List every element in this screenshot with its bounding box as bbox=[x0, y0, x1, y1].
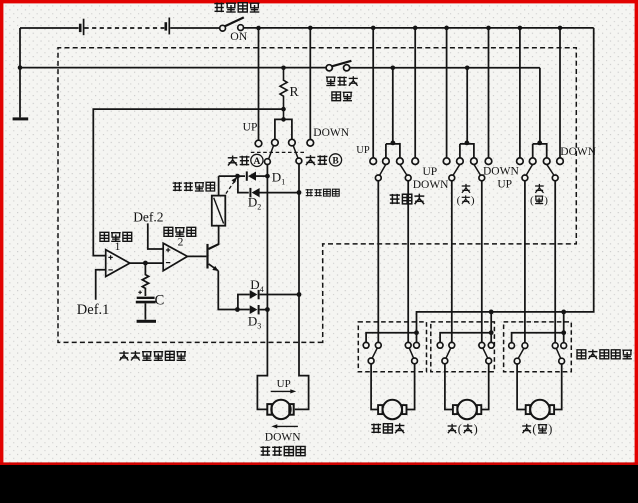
node R bottom bbox=[281, 107, 286, 112]
svg-text:): ) bbox=[544, 195, 548, 207]
wire door-RL internal feed bbox=[440, 333, 491, 343]
dashed actuation arrow bbox=[226, 182, 234, 193]
label 触点 B bbox=[306, 155, 328, 165]
rocker-FP outer contact down bbox=[412, 158, 419, 165]
node D3 branch bbox=[235, 307, 240, 312]
wire door-FP motor left bbox=[371, 364, 378, 410]
wire door-RR motor left bbox=[517, 364, 525, 410]
wire rocker-FP down drop bbox=[414, 28, 416, 158]
wire emitter down bbox=[218, 271, 237, 310]
door-FP lever right bbox=[409, 348, 414, 359]
motor door-RL bbox=[453, 400, 481, 419]
wire second rail left bbox=[20, 67, 326, 69]
wire FP-up drop bbox=[377, 181, 379, 343]
wire D4 stub bbox=[238, 295, 250, 310]
wire coil bottom to collector bbox=[208, 226, 218, 249]
wire contact B vertical bbox=[295, 164, 309, 410]
svg-text:): ) bbox=[548, 422, 552, 436]
door-FP moving contact right bbox=[412, 358, 418, 364]
wire rocker-FP up drop bbox=[372, 28, 374, 158]
label 电磁线圈 solenoid coil bbox=[173, 182, 215, 191]
red frame left bbox=[0, 0, 3, 465]
svg-text:): ) bbox=[471, 195, 475, 207]
svg-text:A: A bbox=[253, 157, 260, 167]
rocker-RL-up moving contact bbox=[449, 175, 455, 181]
driver rocker inner contacts bbox=[272, 139, 279, 146]
wire comp1 lower input Def.1 bbox=[96, 270, 106, 300]
svg-text:): ) bbox=[474, 422, 478, 436]
svg-text:D: D bbox=[248, 195, 257, 210]
door-RL lever left bbox=[446, 348, 451, 359]
door-RL fixed contacts bbox=[437, 342, 443, 348]
red frame right bbox=[635, 0, 638, 465]
node arrow-junction bbox=[235, 174, 240, 179]
svg-text:DOWN: DOWN bbox=[313, 127, 349, 139]
wire box2 feed stub bbox=[490, 312, 492, 333]
label 前驱动器 front driver motor bbox=[260, 446, 305, 456]
node door-RR feed split bbox=[561, 330, 566, 335]
wire rocker-RL feed bbox=[466, 68, 468, 143]
wire driver UP drop bbox=[258, 28, 260, 140]
dashed box door-RR bbox=[504, 322, 572, 372]
battery B2 bbox=[165, 18, 170, 35]
node door-RL feed split bbox=[489, 330, 494, 335]
wire door-FP motor right bbox=[407, 364, 415, 410]
capacitor C bbox=[136, 291, 156, 320]
wire rocker-RR up drop bbox=[519, 28, 521, 158]
rocker-RL outer contact down bbox=[485, 158, 492, 165]
wire rocker-RR feed bbox=[539, 68, 541, 143]
rocker-FP-up lever bbox=[380, 164, 386, 175]
label 点火开关 ignition switch bbox=[214, 3, 259, 13]
rocker-FP-down moving contact bbox=[405, 175, 411, 181]
svg-text:DOWN: DOWN bbox=[560, 146, 596, 158]
wire comp2 output to base bbox=[187, 255, 206, 257]
label 窗锁止 window lock bbox=[326, 76, 358, 86]
dashed box door-RL bbox=[431, 322, 495, 372]
svg-text:D: D bbox=[248, 314, 257, 329]
door-RR moving contact left bbox=[514, 358, 520, 364]
node comp1 out bbox=[143, 261, 148, 266]
driver rocker bridge bbox=[275, 119, 292, 139]
label 后 右 motor bbox=[522, 424, 531, 433]
rocker-FP-up moving contact bbox=[375, 175, 381, 181]
contact A circle bbox=[265, 159, 271, 165]
node rocker-RR bridge bbox=[537, 141, 542, 146]
svg-text:4: 4 bbox=[260, 285, 264, 294]
wire second rail right bbox=[350, 67, 540, 69]
label 前乘客 motor bbox=[371, 423, 404, 433]
node rr-up-tap bbox=[518, 26, 523, 31]
driver DOWN contact bbox=[307, 140, 314, 147]
svg-text:(: ( bbox=[532, 422, 536, 436]
door-RL moving contact right bbox=[486, 358, 492, 364]
node rocker-RL bridge bbox=[465, 141, 470, 146]
red frame bottom line bbox=[0, 462, 638, 465]
label 比较器 1 bbox=[100, 232, 132, 241]
label 前驱动器 front driver (relay) bbox=[306, 189, 340, 196]
wire right feed bus bbox=[417, 28, 594, 333]
wire box3 feed stub bbox=[563, 312, 565, 333]
wire door-RL motor left bbox=[445, 364, 453, 410]
wire top power rail bbox=[243, 27, 593, 29]
node rr-down-tap bbox=[558, 26, 563, 31]
wire Def.2 to comp2 bbox=[148, 223, 163, 249]
label 后 左 rear left switch bbox=[462, 184, 471, 193]
battery B1 bbox=[79, 19, 84, 36]
svg-text:R: R bbox=[290, 84, 299, 99]
red frame top bbox=[0, 0, 638, 3]
svg-text:ON: ON bbox=[230, 29, 248, 43]
wire D1-D2 stub bbox=[238, 176, 249, 193]
node D1 cathode? anode junction bbox=[265, 174, 270, 179]
wire rocker-RL up drop bbox=[446, 28, 448, 158]
svg-text:1: 1 bbox=[281, 177, 285, 186]
rocker-FP-down lever bbox=[400, 164, 407, 175]
diode D3 bbox=[237, 305, 267, 314]
resistor RC small bbox=[142, 263, 148, 296]
label 驾驶座主开关 driver master switch bbox=[119, 351, 186, 361]
resistor R bbox=[280, 68, 287, 120]
svg-text:D: D bbox=[250, 277, 259, 292]
svg-text:Def.2: Def.2 bbox=[133, 209, 163, 224]
comparator 1 bbox=[106, 250, 130, 277]
node pass-feed bbox=[391, 66, 396, 71]
wire RR-up drop bbox=[524, 181, 526, 343]
capacitor ground bbox=[137, 320, 156, 323]
svg-text:UP: UP bbox=[243, 121, 258, 133]
wire battery to ignition switch bbox=[170, 27, 220, 29]
node pass-up-tap bbox=[371, 26, 376, 31]
rocker-RR outer contact down bbox=[557, 158, 564, 165]
contact B circle bbox=[296, 158, 302, 164]
wire rocker-RL down drop bbox=[488, 28, 490, 158]
rocker-RL outer contact up bbox=[443, 158, 450, 165]
door-FP fixed contacts bbox=[363, 342, 369, 348]
transistor Q1 bbox=[206, 244, 219, 271]
svg-text:2: 2 bbox=[178, 236, 184, 248]
label 触点 A bbox=[228, 156, 250, 166]
rocker-RR-down moving contact bbox=[552, 175, 558, 181]
node pass-down-tap bbox=[413, 26, 418, 31]
diode D1 bbox=[246, 171, 268, 180]
rocker-RL-down lever bbox=[474, 164, 481, 175]
dashed box door-FP bbox=[358, 322, 426, 372]
door-RR fixed contacts bbox=[509, 343, 515, 349]
wire door-RR internal feed bbox=[512, 333, 564, 343]
rocker-RR bridge bbox=[533, 144, 547, 158]
svg-text:B: B bbox=[332, 157, 339, 167]
rocker-RL inner contacts bbox=[457, 158, 464, 165]
svg-text:1: 1 bbox=[115, 241, 121, 253]
wire dashed battery link bbox=[85, 27, 165, 29]
svg-text:Def.1: Def.1 bbox=[77, 302, 110, 318]
svg-text:DOWN: DOWN bbox=[265, 432, 301, 444]
rocker-RR inner contacts bbox=[529, 158, 536, 165]
door-RR lever right bbox=[556, 348, 561, 359]
dashed box driver master switch bbox=[58, 48, 576, 343]
svg-text:(: ( bbox=[458, 422, 462, 436]
door-FP lever left bbox=[372, 348, 377, 359]
wire comp1 output bbox=[130, 262, 163, 264]
svg-text:UP: UP bbox=[497, 178, 512, 190]
label 后 左 motor bbox=[448, 424, 457, 433]
wire rocker-RR down drop bbox=[559, 28, 561, 158]
rocker-RR outer contact up bbox=[517, 158, 524, 165]
label 各车门开关 door switches bbox=[577, 349, 632, 359]
rocker-RR-down lever bbox=[547, 164, 554, 175]
motor M-front-driver bbox=[267, 400, 293, 419]
svg-text:UP: UP bbox=[356, 145, 370, 156]
dashed rocker coupling bbox=[251, 151, 304, 153]
node rl-up-tap bbox=[444, 26, 449, 31]
node ignition-out bbox=[256, 26, 261, 31]
driver rocker lever B bbox=[293, 145, 298, 158]
wire left drop to ground bbox=[19, 28, 21, 117]
node door-FP feed split bbox=[414, 330, 419, 335]
label 开关 switch bbox=[332, 92, 352, 101]
label DOWN arrow front driver bbox=[275, 425, 298, 427]
svg-text:(: ( bbox=[457, 195, 461, 207]
wire door-RL motor right bbox=[482, 364, 489, 410]
label 后 右 rear right switch bbox=[535, 184, 544, 193]
node D2 junction bbox=[297, 190, 302, 195]
door-RR lever left bbox=[518, 348, 524, 359]
ground bbox=[13, 117, 29, 120]
door-RL lever right bbox=[483, 348, 488, 359]
svg-text:2: 2 bbox=[257, 203, 261, 212]
wire RR-down drop bbox=[554, 181, 556, 343]
ignition switch S1 bbox=[220, 17, 244, 31]
comparator 2 bbox=[163, 243, 187, 271]
door-RL moving contact left bbox=[442, 358, 448, 364]
wire contact A vertical bbox=[257, 165, 267, 410]
node box2 feed bbox=[489, 310, 494, 315]
label 前乘客 front passenger switch bbox=[390, 194, 425, 204]
rocker-FP inner contacts bbox=[383, 158, 390, 165]
rocker-RL-down moving contact bbox=[479, 175, 485, 181]
wire comparator sense line bbox=[93, 109, 283, 256]
svg-text:3: 3 bbox=[257, 322, 261, 331]
rocker-RL bridge bbox=[460, 144, 474, 158]
solenoid coil bbox=[212, 176, 226, 226]
node rl-feed bbox=[465, 66, 470, 71]
diode D2 bbox=[249, 188, 299, 197]
node rl-down-tap bbox=[486, 26, 491, 31]
rocker-RR-up lever bbox=[526, 164, 533, 175]
svg-text:DOWN: DOWN bbox=[413, 179, 449, 191]
door-RR moving contact right bbox=[559, 358, 565, 364]
window lock switch bbox=[326, 61, 351, 71]
diode D4 bbox=[250, 290, 299, 299]
wire door-FP internal feed bbox=[366, 333, 416, 343]
rocker-FP bridge bbox=[386, 144, 400, 158]
svg-text:D: D bbox=[272, 169, 281, 184]
door-FP moving contact left bbox=[368, 358, 374, 364]
wire RL-up drop bbox=[451, 181, 453, 343]
black bottom bar bbox=[0, 465, 638, 503]
motor door-RR bbox=[526, 400, 554, 419]
wire driver DOWN drop bbox=[309, 28, 311, 140]
node R top bbox=[281, 66, 286, 71]
svg-text:UP: UP bbox=[422, 166, 437, 178]
svg-text:(: ( bbox=[530, 195, 534, 207]
node D4 junction bbox=[297, 292, 302, 297]
driver rocker lever A bbox=[269, 145, 274, 158]
wire battery top-left bbox=[20, 27, 79, 29]
label 比较器 2 bbox=[164, 227, 196, 236]
wire coil top to D1 bbox=[219, 175, 245, 177]
wire rocker-FP feed bbox=[392, 68, 394, 143]
node driver-down-tap bbox=[308, 26, 313, 31]
wire FP-down drop bbox=[407, 181, 409, 343]
svg-text:UP: UP bbox=[277, 378, 291, 390]
rocker-RR-up moving contact bbox=[522, 175, 528, 181]
motor door-FP bbox=[378, 400, 406, 419]
node ground branch bbox=[18, 65, 23, 70]
svg-text:C: C bbox=[155, 292, 165, 308]
rocker-RL-up lever bbox=[453, 164, 460, 175]
node driver rocker feed bbox=[281, 117, 286, 122]
node rocker-FP bridge bbox=[391, 141, 396, 146]
svg-text:DOWN: DOWN bbox=[483, 166, 519, 178]
wire door-RR motor right bbox=[554, 364, 561, 410]
driver UP contact bbox=[255, 140, 262, 147]
rocker-FP outer contact up bbox=[370, 158, 377, 165]
node box3 feed bbox=[561, 310, 566, 315]
wire RL-down drop bbox=[481, 181, 483, 343]
node D3 junction bbox=[265, 307, 270, 312]
